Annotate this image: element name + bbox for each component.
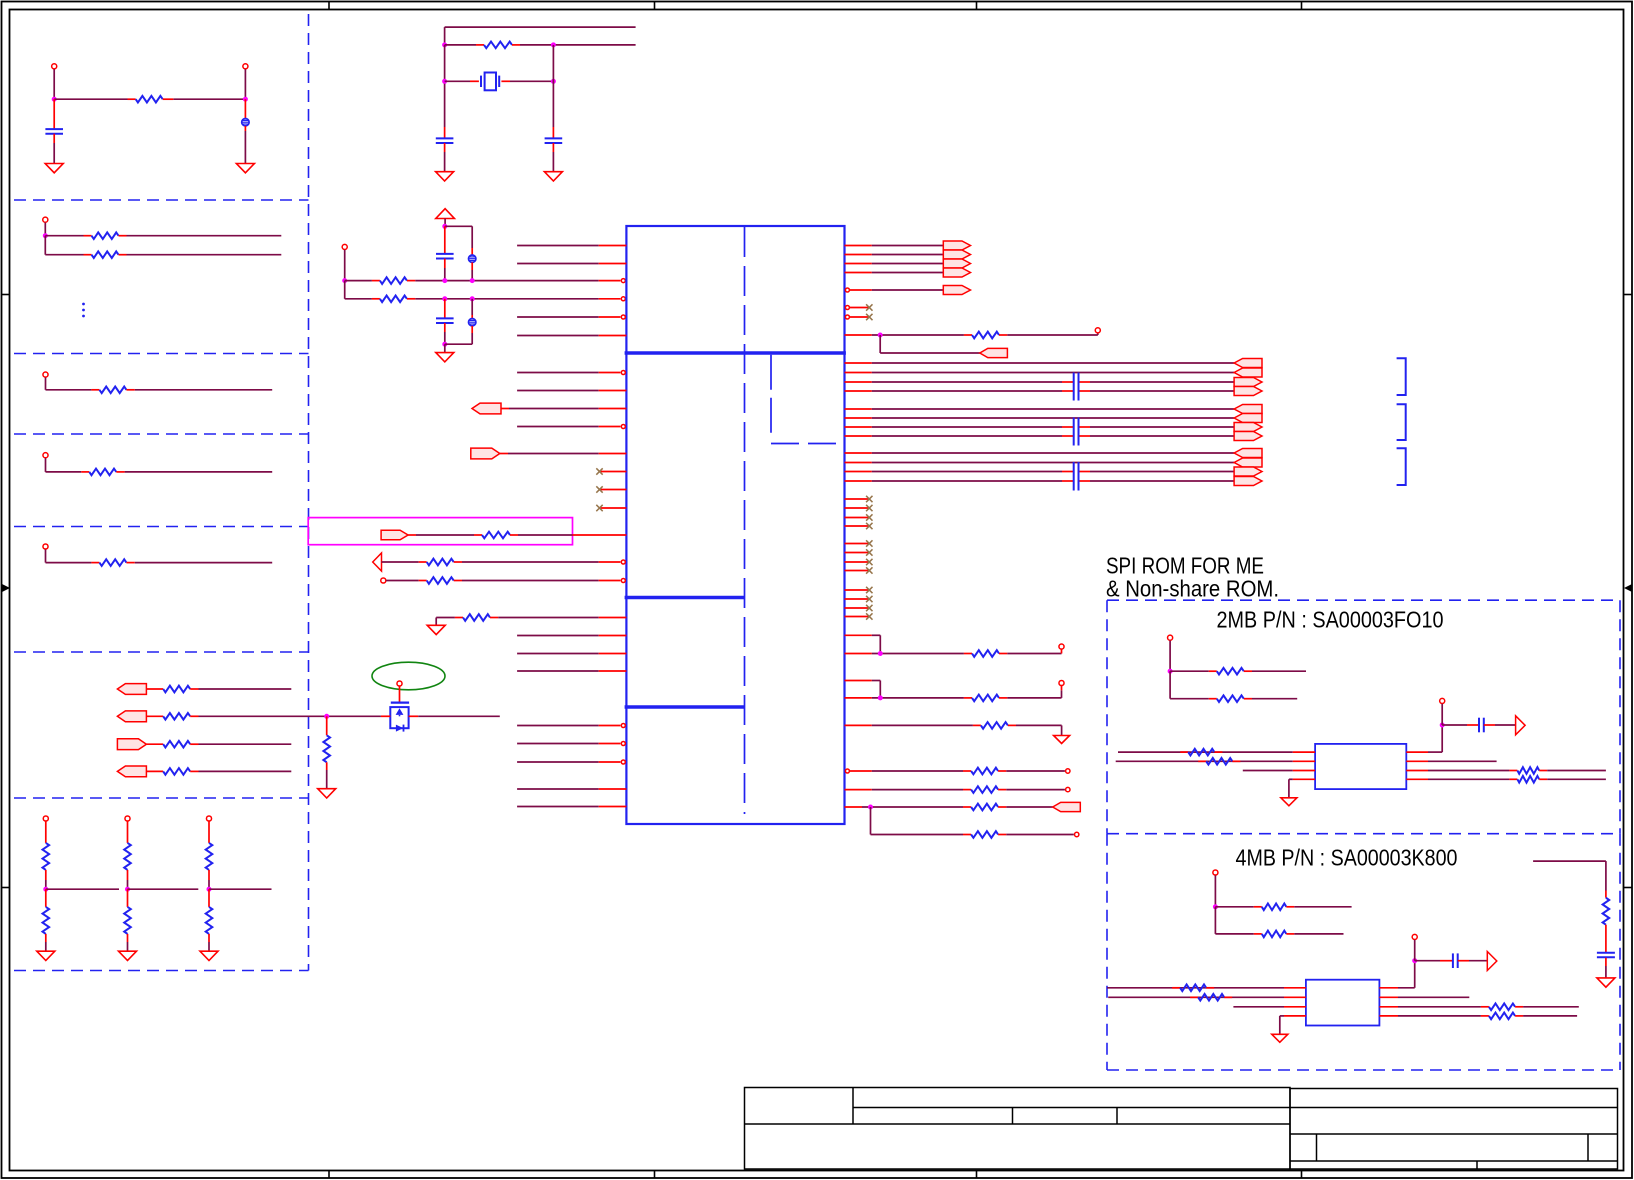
U1 left pin wire	[517, 653, 599, 655]
ground	[318, 789, 336, 798]
wire	[45, 254, 83, 256]
bus group 2 wire	[845, 426, 872, 428]
bus group 2 arrow	[1234, 414, 1262, 423]
node junction	[342, 278, 347, 283]
dashed partition line 1	[14, 199, 309, 201]
no-connect pin stub	[845, 598, 870, 600]
terminal J13	[1095, 328, 1100, 333]
U3 right pin wire 4	[1379, 1015, 1398, 1017]
capacitor C5	[444, 299, 446, 318]
resistor R9	[146, 743, 163, 745]
wire	[445, 44, 476, 46]
wire	[208, 821, 210, 843]
resistor R4	[91, 389, 99, 391]
no-connect pin stub	[845, 570, 870, 572]
resistor R13	[124, 843, 131, 870]
wire	[462, 561, 599, 563]
U1 right pin wire	[845, 254, 872, 256]
wire	[444, 219, 446, 227]
bus group 3 wire	[845, 462, 872, 464]
resistor R12	[45, 889, 47, 907]
wire	[444, 344, 446, 352]
frame zone ticks	[328, 2, 330, 10]
port P4	[117, 766, 146, 777]
bus group 3 arrow	[1234, 458, 1262, 467]
node junction	[442, 79, 447, 84]
wire	[46, 562, 92, 564]
capacitor C1	[53, 99, 55, 128]
U1 left pin wire	[517, 725, 599, 727]
ferrite bead FB3	[471, 299, 473, 315]
capacitor C3	[552, 127, 554, 138]
U1 right pin wire	[845, 769, 849, 773]
dashed partition line 2	[14, 353, 309, 355]
wire	[498, 617, 598, 619]
wire	[44, 223, 46, 236]
capacitor C2	[444, 127, 446, 138]
wire	[1007, 653, 1061, 655]
resistor R1	[128, 98, 136, 100]
U2 right pin wire 1	[1406, 751, 1428, 753]
wire	[1252, 698, 1297, 700]
wire	[199, 715, 327, 717]
ferrite bead FB2	[471, 248, 473, 255]
bus group 2 series capacitors	[1073, 418, 1075, 446]
IC internal vertical line	[770, 355, 772, 434]
wire	[45, 378, 47, 390]
green ellipse highlight	[372, 662, 445, 690]
wire	[445, 26, 636, 28]
bus group 3 arrow	[1234, 449, 1262, 458]
wire	[462, 580, 599, 582]
node junction	[470, 278, 475, 283]
pin circle	[621, 279, 625, 283]
node junction	[207, 887, 212, 892]
node junction	[442, 296, 447, 301]
wire	[46, 888, 119, 890]
wire	[1214, 875, 1216, 906]
resistor R28	[973, 724, 981, 726]
ground	[1597, 978, 1615, 987]
wire	[1169, 671, 1171, 699]
svg-text:& Non-share ROM.: & Non-share ROM.	[1106, 576, 1279, 602]
no-connect pin stub	[600, 489, 626, 491]
bus arrow	[943, 259, 970, 268]
bus arrow	[943, 250, 970, 259]
ground	[1281, 798, 1297, 806]
U1 right pin wire	[845, 806, 863, 808]
wire	[1414, 940, 1416, 961]
bus group 2 wire	[845, 417, 872, 419]
bus group 2 arrow	[1234, 432, 1262, 441]
terminal J17	[1440, 698, 1445, 703]
U1 left pin wire	[517, 635, 599, 637]
wire	[46, 389, 92, 391]
node junction	[470, 296, 475, 301]
open arrow A2	[1516, 716, 1526, 735]
ground	[1054, 736, 1070, 744]
no-connect pin stub	[600, 507, 626, 509]
resistor R36	[1198, 760, 1206, 762]
ground	[236, 164, 254, 173]
terminal J9	[206, 816, 211, 821]
wire	[45, 235, 83, 237]
port P5	[472, 403, 501, 414]
resistor R34	[1170, 698, 1209, 700]
terminal J4	[43, 372, 48, 377]
wire	[1523, 1015, 1577, 1017]
U2 right pin wire 3	[1406, 770, 1428, 772]
bus group 3 arrow	[1234, 467, 1262, 476]
resistor R40	[1215, 933, 1253, 935]
node B junction	[243, 97, 248, 102]
resistor R41	[1172, 987, 1180, 989]
U1 right pin wire	[845, 272, 872, 274]
node junction	[878, 333, 883, 338]
terminal J19	[1412, 934, 1417, 939]
resistor R43	[1481, 1006, 1489, 1008]
U1 left pin wire	[517, 372, 599, 374]
U1 left pin wire	[517, 316, 599, 318]
U3 left pin wire 4	[1284, 1015, 1306, 1017]
resistor R35	[1180, 751, 1188, 753]
ground	[200, 951, 218, 960]
ground	[436, 172, 454, 181]
node junction	[551, 42, 556, 47]
wire	[399, 686, 401, 702]
bus group 1 wire	[845, 381, 872, 383]
frame left arrow	[2, 584, 10, 592]
resistor R10	[146, 770, 163, 772]
bus group 3 bracket	[1397, 448, 1406, 485]
wire	[471, 226, 473, 248]
node junction	[43, 233, 48, 238]
IC thick section line 3	[625, 705, 745, 708]
wire	[344, 281, 346, 299]
U2 left pin wire 1	[1118, 751, 1293, 753]
U1 right pin wire	[845, 680, 872, 682]
U1 left pin wire	[517, 761, 599, 763]
node junction	[1440, 723, 1445, 728]
wire	[44, 236, 46, 255]
resistor R25	[964, 334, 972, 336]
no-connect pin stub	[600, 471, 626, 473]
node A junction	[52, 97, 57, 102]
node junction	[1213, 904, 1218, 909]
ferrite bead FB1	[244, 99, 246, 118]
ROM U2 body	[1315, 744, 1406, 789]
IC U1 body	[626, 226, 844, 824]
resistor R14	[127, 889, 129, 907]
U3 left pin wire 2	[1108, 996, 1284, 998]
bus group 2 arrow	[1234, 423, 1262, 432]
resistor R16	[208, 889, 210, 907]
resistor R23	[386, 580, 419, 582]
ground	[1272, 1034, 1288, 1042]
bus group 2 arrow	[1234, 405, 1262, 414]
U2 right pin wire 2	[1406, 760, 1428, 762]
resistor R18	[372, 280, 380, 282]
bus group 1 series capacitors	[1073, 373, 1075, 401]
dashed partition line 5	[14, 651, 309, 653]
U3 right pin wire 3	[1379, 1006, 1398, 1008]
U1 left pin wire	[517, 390, 599, 392]
dashed box 4MB	[1107, 833, 1620, 835]
U1 right pin wire	[845, 724, 872, 726]
ground	[37, 951, 55, 960]
node junction	[324, 714, 329, 719]
wire	[1016, 724, 1062, 726]
U3 right pin wire 2	[1379, 996, 1398, 998]
wire	[45, 870, 47, 880]
wire	[1214, 907, 1216, 934]
wire	[518, 534, 573, 536]
node junction	[1168, 669, 1173, 674]
U1 right pin wire	[845, 789, 872, 791]
wire	[445, 225, 472, 227]
U1 left pin wire	[517, 335, 599, 337]
U1 left pin wire	[517, 670, 599, 672]
wire	[1006, 834, 1074, 836]
port P7	[381, 530, 408, 540]
wire	[209, 888, 272, 890]
bus group 2 wire	[845, 435, 872, 437]
wire	[1547, 778, 1606, 780]
dashed box 2MB	[1107, 599, 1620, 601]
node junction	[442, 42, 447, 47]
bus group 3 wire	[845, 471, 872, 473]
wire	[1006, 770, 1065, 772]
wire	[199, 688, 292, 690]
resistor R45	[1605, 891, 1607, 898]
terminal J6	[43, 544, 48, 549]
resistor R42	[1190, 996, 1198, 998]
wire	[1605, 932, 1607, 952]
U1 left pin wire	[517, 788, 599, 790]
no-connect pin stub	[845, 507, 870, 509]
wire	[879, 335, 881, 353]
U1 right pin wire	[845, 634, 872, 636]
resistor R15	[206, 843, 213, 870]
bus group 1 bracket	[1397, 358, 1406, 395]
no-connect pin stub	[845, 315, 849, 319]
wire	[54, 98, 127, 100]
highlight box	[308, 518, 572, 545]
resistor R29	[963, 770, 971, 772]
no-connect pin stub	[845, 498, 870, 500]
wire	[127, 934, 129, 942]
ground	[119, 951, 137, 960]
wire	[1441, 704, 1443, 725]
no-connect pin stub	[845, 589, 870, 591]
capacitor C4	[444, 226, 446, 253]
wire	[1006, 806, 1052, 808]
resistor R33	[1170, 670, 1209, 672]
wire	[500, 453, 508, 455]
resistor R37	[1509, 770, 1517, 772]
no-connect pin stub	[845, 525, 870, 527]
IC internal dashed horizontal	[771, 443, 845, 445]
wire	[345, 298, 372, 300]
ground	[436, 353, 454, 362]
no-connect pin stub	[845, 616, 870, 618]
resistor R2	[84, 235, 92, 237]
resistor R24	[436, 617, 455, 619]
capacitor C8	[1597, 952, 1615, 954]
node junction	[1412, 958, 1417, 963]
title block right section	[1290, 1089, 1618, 1170]
wire	[128, 888, 199, 890]
terminal J14	[1059, 644, 1064, 649]
bus group 3 wire	[845, 480, 872, 482]
node junction	[125, 887, 130, 892]
resistor R7	[146, 688, 163, 690]
bus group 1 arrow	[1234, 378, 1262, 387]
resistor R8	[146, 715, 163, 717]
wire	[1252, 670, 1306, 672]
wire	[1495, 724, 1516, 726]
port P6	[471, 448, 500, 459]
terminal J18	[1213, 870, 1218, 875]
ground	[544, 172, 562, 181]
wire	[1294, 906, 1351, 908]
U2 left pin wire 4	[1293, 778, 1315, 780]
terminal J11	[397, 681, 402, 686]
bus group 1 arrow	[1234, 387, 1262, 396]
wire	[327, 715, 381, 717]
U1 right pin wire	[845, 697, 872, 699]
wire	[444, 45, 446, 81]
node junction	[868, 805, 873, 810]
bus group 2 bracket	[1397, 404, 1406, 440]
wire	[208, 870, 210, 880]
U2 left pin wire 2	[1116, 760, 1293, 762]
ground	[45, 164, 63, 173]
U1 right pin wire	[845, 653, 872, 655]
wire	[45, 934, 47, 942]
port P2	[117, 711, 146, 722]
wire	[326, 770, 328, 789]
wire	[1523, 1006, 1579, 1008]
no-connect pin stub	[845, 561, 870, 563]
capacitor C6	[1442, 724, 1467, 726]
node junction	[442, 278, 447, 283]
resistor R39	[1215, 906, 1253, 908]
U1 left pin wire	[517, 743, 599, 745]
no-connect pin stub	[845, 543, 870, 545]
node junction	[442, 224, 447, 229]
U1 right pin wire	[845, 263, 872, 265]
U3 left pin wire 3	[1233, 1006, 1284, 1008]
U1 right pin wire	[845, 288, 849, 292]
IC thick section line 2	[625, 596, 745, 599]
bus group 1 wire	[845, 390, 872, 392]
U1 left pin wire	[517, 263, 599, 265]
bus group 3 series capacitors	[1073, 462, 1075, 491]
U1 right pin wire	[845, 334, 872, 336]
terminal J8	[125, 816, 130, 821]
open arrow A3	[1487, 952, 1497, 971]
IC thick section line 1	[625, 351, 846, 354]
U1 right pin wire	[845, 245, 872, 247]
bus group 2 wire	[845, 408, 872, 410]
wire	[1294, 933, 1343, 935]
resistor R19	[372, 298, 380, 300]
resistor R20	[326, 716, 328, 735]
terminal J15	[1059, 680, 1064, 685]
dashed partition vertical	[308, 14, 310, 971]
port P8	[980, 348, 1008, 357]
svg-text:4MB P/N : SA00003K800: 4MB P/N : SA00003K800	[1236, 845, 1458, 871]
bus group 1 arrow	[1234, 359, 1262, 368]
dashed partition line 3	[14, 433, 309, 435]
wire	[1007, 334, 1098, 336]
node junction	[551, 79, 556, 84]
U1 left pin wire	[517, 245, 599, 247]
wire	[445, 343, 472, 345]
wire	[46, 471, 82, 473]
U2 left pin wire 3	[1243, 770, 1293, 772]
bus arrow	[943, 268, 970, 277]
resistor R44	[1481, 1015, 1489, 1017]
wire	[552, 45, 554, 127]
node junction	[878, 695, 883, 700]
wire	[1169, 641, 1171, 672]
pin circle	[621, 297, 625, 301]
U3 left pin wire 1	[1107, 987, 1284, 989]
resistor R22	[382, 561, 419, 563]
no-connect pin stub	[845, 306, 849, 310]
terminal J12	[381, 578, 386, 583]
U3 right pin wire 1	[1379, 987, 1398, 989]
resistor R5	[81, 471, 89, 473]
title block left section	[745, 1088, 1291, 1170]
wire	[199, 743, 292, 745]
svg-text:2MB P/N : SA00003FO10: 2MB P/N : SA00003FO10	[1217, 607, 1444, 633]
port P3	[117, 739, 146, 750]
terminal J5	[43, 453, 48, 458]
bus group 1 wire	[845, 362, 872, 364]
bus group 1 wire	[845, 372, 872, 374]
frame right arrow	[1624, 584, 1632, 592]
resistor R32	[963, 834, 971, 836]
resistor R38	[1509, 778, 1517, 780]
crystal Y1	[445, 80, 470, 82]
wire	[45, 821, 47, 843]
U1 left pin wire	[517, 426, 599, 428]
wire	[127, 821, 129, 843]
wire	[435, 618, 437, 626]
no-connect pin stub	[845, 607, 870, 609]
wire	[381, 715, 390, 717]
wire	[345, 280, 372, 282]
wire	[127, 870, 129, 880]
capacitor C7	[1415, 960, 1440, 962]
wire	[244, 69, 246, 99]
wire	[1533, 860, 1606, 862]
U1 left pin wire	[517, 806, 599, 808]
terminal J3	[43, 217, 48, 222]
resistor R27	[964, 697, 972, 699]
resistor R31	[963, 806, 971, 808]
port P9	[1053, 802, 1081, 811]
wire	[53, 69, 55, 99]
wire	[1006, 789, 1065, 791]
ROM U3 body	[1306, 980, 1380, 1026]
node junction	[878, 651, 883, 656]
wire	[444, 27, 446, 45]
open arrow A1	[373, 553, 382, 571]
